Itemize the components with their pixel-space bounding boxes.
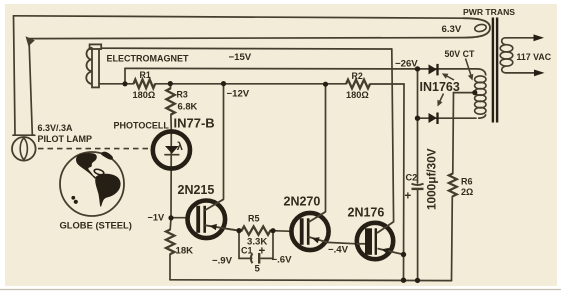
transistor Q2 2N270 circle xyxy=(291,213,328,250)
svg-text:117 VAC: 117 VAC xyxy=(517,52,552,62)
pilot lamp bulb xyxy=(12,137,36,161)
2N270 emitter arrow xyxy=(312,237,320,243)
svg-text:IN1763: IN1763 xyxy=(420,80,460,94)
wire diode2 line xyxy=(418,117,477,119)
svg-text:PILOT LAMP: PILOT LAMP xyxy=(38,134,93,144)
svg-text:2Ω: 2Ω xyxy=(461,187,473,197)
svg-text:−.9V: −.9V xyxy=(212,256,233,267)
dashed light beam lamp to photocell xyxy=(38,148,149,150)
resistor R5 zigzag xyxy=(239,226,273,234)
node -1V junction xyxy=(168,215,173,220)
wire C2 bottom lead to rail xyxy=(417,190,419,280)
wire jog connecting -26V line to R1 node xyxy=(124,68,126,83)
node -12V junction xyxy=(221,81,226,86)
node -.9V junction (R5/C1 left) xyxy=(236,228,241,233)
resistor 18K zigzag xyxy=(166,230,174,255)
svg-text:50V CT: 50V CT xyxy=(445,49,475,59)
wire -15V line (electromagnet top to drop) xyxy=(101,47,392,50)
svg-text:PWR TRANS: PWR TRANS xyxy=(463,7,515,17)
transformer 117VAC secondary xyxy=(502,38,541,45)
transformer core xyxy=(492,18,494,123)
wire R3 bottom lead to photocell xyxy=(170,115,172,131)
svg-text:IN77-B: IN77-B xyxy=(174,116,215,131)
svg-text:5: 5 xyxy=(255,264,261,275)
2N270 emitter line xyxy=(308,237,328,243)
2N215 base bars xyxy=(196,206,200,233)
node R2/2N270 collector junction xyxy=(323,82,328,87)
globe map Greenland xyxy=(101,152,113,160)
wire R6 bottom lead to rail corner xyxy=(451,196,454,280)
wire bottom common rail xyxy=(170,279,452,282)
resistor R2 zigzag xyxy=(346,80,370,89)
globe map Cuba ring xyxy=(94,168,105,176)
2N176 base bars xyxy=(365,228,372,255)
wire -12V drop to 2N215 collector xyxy=(223,84,225,200)
node 2N176 emitter junction xyxy=(401,252,406,257)
junction arrow decoration at lamp corner xyxy=(26,36,35,46)
wire -26V vertical between diode taps and C2 xyxy=(417,69,419,183)
svg-text:PHOTOCELL: PHOTOCELL xyxy=(114,121,170,131)
wire lamp left lead xyxy=(14,16,16,135)
svg-text:−12V: −12V xyxy=(227,89,250,100)
svg-text:18K: 18K xyxy=(176,246,194,257)
wire 2N215 base lead xyxy=(171,217,188,219)
label arrow 50VCT to winding xyxy=(466,59,472,78)
resistor R3 zigzag xyxy=(166,88,174,114)
diode D1 IN1763 xyxy=(429,64,437,74)
globe map island specks xyxy=(71,196,75,200)
line cord arrow bottom xyxy=(534,70,545,77)
capacitor C1 curved plate xyxy=(251,253,253,263)
wire -15V vertical drop to 2N176 collector xyxy=(392,49,394,222)
node diode D2 junction xyxy=(415,116,420,121)
svg-text:R2: R2 xyxy=(352,71,363,81)
2N176 collector line xyxy=(377,222,394,233)
wire R3 top lead xyxy=(169,84,171,89)
diode D2 IN1763 xyxy=(429,113,437,123)
wire R5 right node to 2N270 base xyxy=(273,230,292,233)
wire lamp right lead xyxy=(29,39,32,135)
svg-text:GLOBE (STEEL): GLOBE (STEEL) xyxy=(60,220,132,231)
globe map South America xyxy=(95,174,120,207)
2N176 base lead xyxy=(357,243,365,245)
label arrow to diode D1 xyxy=(444,75,454,81)
svg-text:R6: R6 xyxy=(461,177,473,187)
globe map isthmus xyxy=(92,175,96,179)
svg-text:R1: R1 xyxy=(140,70,151,80)
svg-text:−.6V: −.6V xyxy=(272,255,293,266)
svg-text:2N270: 2N270 xyxy=(284,195,321,209)
wire second rail 6.3V return xyxy=(29,38,463,39)
node R1/R3 junction xyxy=(168,81,173,86)
wire center tap vertical to R6 xyxy=(452,93,455,174)
transformer 50V CT winding xyxy=(477,69,486,76)
wire -1V node to 18K xyxy=(169,218,172,230)
svg-text:λ: λ xyxy=(177,141,183,153)
2N176 emitter arrow xyxy=(382,248,390,254)
svg-text:R3: R3 xyxy=(177,90,188,100)
wire bias line left segment (electromagnet bottom to R1) xyxy=(99,83,134,85)
globe map North America xyxy=(76,153,97,176)
capacitor C2 bottom plate xyxy=(412,188,424,190)
svg-text:2N215: 2N215 xyxy=(178,183,215,197)
wire center tap horizontal xyxy=(454,92,475,94)
svg-text:−.4V: −.4V xyxy=(328,245,349,256)
wire photocell through-lead down to -1V node xyxy=(170,131,172,218)
line cord arrow top xyxy=(534,34,545,41)
wire top rail 6.3V (lamp left lead to transformer) xyxy=(14,16,464,18)
svg-text:180Ω: 180Ω xyxy=(346,90,369,100)
2N270 base bars xyxy=(300,218,304,245)
2N270 collector line xyxy=(308,212,326,223)
node -26V junction xyxy=(415,66,420,71)
svg-text:6.8K: 6.8K xyxy=(178,101,198,112)
electromagnet core xyxy=(92,45,99,88)
wire C1 loop right side xyxy=(261,231,273,259)
svg-text:6.3V/.3A: 6.3V/.3A xyxy=(38,123,74,133)
node electromagnet/R1/-26V junction xyxy=(122,81,127,86)
2N215 collector line xyxy=(205,199,224,210)
pilot lamp base bar xyxy=(13,134,35,136)
capacitor C2 top plate xyxy=(412,184,424,185)
svg-text:−26V: −26V xyxy=(395,59,418,70)
wire 18K bottom lead to bottom rail corner xyxy=(169,254,171,280)
transistor Q3 2N176 circle xyxy=(357,223,393,259)
svg-text:R5: R5 xyxy=(248,214,260,224)
svg-text:+: + xyxy=(259,246,266,258)
wire bias line R1 to R2 xyxy=(155,83,346,85)
photocell diode triangle xyxy=(165,146,179,154)
pilot lamp filament lens xyxy=(20,138,27,160)
2N215 emitter line xyxy=(205,225,240,230)
svg-text:+: + xyxy=(405,191,412,203)
resistor R1 zigzag xyxy=(134,80,156,89)
2N176 emitter line xyxy=(378,249,404,255)
wire R5 left (2N215 emitter node) xyxy=(223,228,239,230)
transformer 6.3V hairpin winding xyxy=(463,18,490,37)
wire C1 loop left side xyxy=(239,231,252,259)
svg-text:C2: C2 xyxy=(406,173,418,183)
wire bias line R2 right to ground drop corner xyxy=(370,83,404,85)
label arrow to diode D2 xyxy=(439,94,444,104)
svg-text:180Ω: 180Ω xyxy=(133,90,156,100)
wire 2N270 emitter to 2N176 base xyxy=(328,242,357,243)
photocell cathode bar xyxy=(164,154,179,156)
capacitor C1 straight plate xyxy=(258,253,260,264)
globe circle xyxy=(60,152,124,216)
svg-text:1000μf/30V: 1000μf/30V xyxy=(425,148,439,210)
resistor R6 zigzag xyxy=(449,174,457,197)
svg-text:C1: C1 xyxy=(241,246,253,256)
svg-text:6.3V: 6.3V xyxy=(442,24,462,35)
electromagnet coil loops xyxy=(86,48,92,84)
svg-text:2N176: 2N176 xyxy=(348,206,385,220)
transistor Q1 2N215 circle xyxy=(188,201,226,239)
wire diode1 line -26V node to winding xyxy=(418,68,478,70)
wire -26V horizontal line xyxy=(125,67,418,70)
node 50V winding center tap xyxy=(472,90,477,95)
node -.6V junction (R5/C1 right) xyxy=(270,228,275,233)
node bottom rail / C2 xyxy=(415,278,420,283)
wire 2N270 collector drop xyxy=(325,84,327,212)
svg-text:ELECTROMAGNET: ELECTROMAGNET xyxy=(107,54,190,64)
wire ground drop from R2 through 2N176 emitter to bottom rail xyxy=(403,84,406,280)
svg-text:−1V: −1V xyxy=(148,213,165,223)
2N215 emitter arrow xyxy=(210,224,217,230)
svg-text:−15V: −15V xyxy=(229,52,252,63)
photocell IN77-B circle xyxy=(153,131,190,168)
node bottom rail / emitter drop xyxy=(401,278,406,283)
